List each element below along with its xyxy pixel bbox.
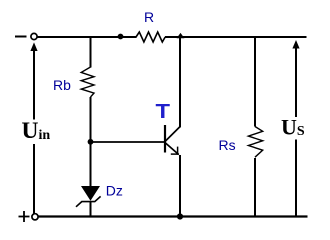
svg-text:Dz: Dz <box>106 183 123 199</box>
svg-text:Rs: Rs <box>219 137 236 153</box>
resistor Rb <box>81 67 94 97</box>
wire Rb top <box>90 36 92 68</box>
U_S arrow <box>292 40 299 216</box>
wire Rb to zener <box>90 97 92 187</box>
wire Rs top <box>254 36 256 127</box>
wire emitter vertical <box>179 155 181 217</box>
wire top right <box>165 36 307 38</box>
resistor Rs <box>248 127 262 158</box>
junction dot emitter-bottom <box>177 213 183 219</box>
svg-text:Rb: Rb <box>53 77 71 93</box>
svg-text:T: T <box>156 101 171 123</box>
junction dot node B (collector node) <box>177 33 185 38</box>
wire zener to bottom <box>90 202 92 217</box>
minus terminal sign <box>15 36 27 38</box>
resistor R <box>136 32 165 42</box>
svg-text:R: R <box>144 9 154 25</box>
wire base lead <box>91 141 165 143</box>
U_in arrow <box>30 42 37 213</box>
plus terminal sign <box>19 211 30 222</box>
wire Rs bottom <box>254 158 256 217</box>
wire top left <box>37 36 136 38</box>
zener diode Dz <box>76 186 101 207</box>
input terminal top (open circle) <box>31 33 37 39</box>
junction dot node A <box>118 34 124 40</box>
bottom wire <box>38 215 307 217</box>
input terminal bottom (open circle) <box>32 214 38 220</box>
junction dot base node <box>88 139 94 145</box>
wire collector vertical <box>179 37 181 127</box>
transistor T <box>165 125 180 155</box>
